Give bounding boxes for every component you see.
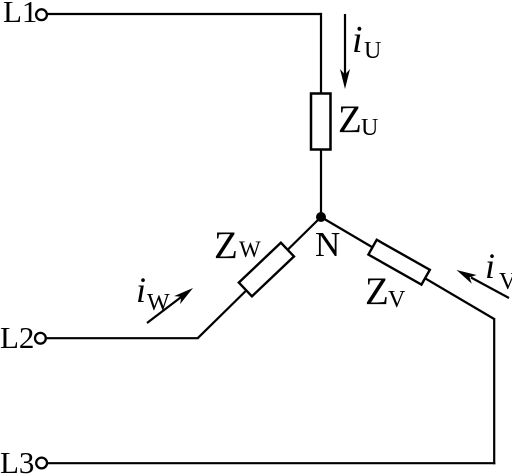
- svg-text:W: W: [147, 290, 170, 316]
- impedance Z_U: [311, 94, 331, 150]
- svg-text:Z: Z: [214, 224, 238, 267]
- wire N to right corner (through Z_V): [321, 217, 494, 319]
- svg-text:i: i: [485, 246, 495, 286]
- wire Z_U to node N: [320, 150, 322, 217]
- wire L2 horizontal: [46, 337, 199, 339]
- impedance Z_V: [368, 240, 429, 285]
- node N junction dot: [316, 212, 326, 222]
- impedance Z_W: [239, 243, 294, 297]
- current arrow i_U: [340, 14, 350, 89]
- current arrow i_W: [147, 288, 193, 323]
- terminal L2: [35, 333, 46, 344]
- svg-text:U: U: [361, 115, 378, 141]
- svg-text:L2: L2: [0, 320, 34, 355]
- svg-text:U: U: [364, 38, 381, 64]
- terminal L1: [36, 9, 47, 20]
- svg-text:L3: L3: [0, 445, 34, 474]
- svg-text:i: i: [352, 19, 363, 61]
- svg-text:i: i: [136, 270, 146, 310]
- svg-text:Z: Z: [365, 270, 389, 313]
- svg-text:W: W: [239, 237, 261, 262]
- terminal L3: [36, 458, 47, 469]
- svg-text:N: N: [315, 225, 340, 264]
- wire right vertical: [493, 318, 495, 464]
- wire N to L2 corner (through Z_W): [198, 217, 321, 338]
- wire L1 vertical drop: [320, 13, 322, 94]
- svg-text:V: V: [499, 269, 512, 295]
- current arrow i_V: [457, 270, 510, 298]
- wire L3 horizontal: [46, 462, 495, 464]
- wire L1 horizontal: [48, 13, 322, 15]
- svg-text:V: V: [388, 287, 406, 313]
- svg-text:L1: L1: [3, 0, 37, 29]
- svg-text:Z: Z: [338, 98, 362, 141]
